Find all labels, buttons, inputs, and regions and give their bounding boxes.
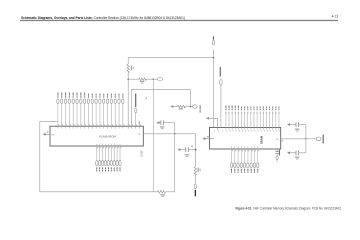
SRAM top pin A6 stub/label [260,107,262,132]
FLASH ROM top pin A9 stub/oval/label [87,94,90,129]
FLASH ROM bottom pin D0 stub/oval/label [96,144,99,172]
svg-text:U350: U350 [139,150,143,157]
FLASH ROM top pin A4 stub/oval/label [106,94,109,129]
FLASH ROM bottom pin D7 stub/oval/label [116,144,119,172]
junction dot at VPP node [127,78,129,80]
SRAM top pin A14 stub/label [235,106,237,132]
capacitor C364 with left arrow [287,150,306,159]
junction dot on FLASH right wire [174,133,176,135]
SRAM top pin A1 stub/label [275,107,277,132]
SRAM top pin A7 stub/label [257,107,259,132]
SRAM bottom pin D3 stub/oval/label [240,146,243,172]
FLASH ROM bottom pin D1 stub/oval/label [99,144,102,172]
svg-text:FLASH ROM: FLASH ROM [100,134,117,138]
capacitor C361 with left arrow and + [177,146,195,157]
SRAM bottom pin D2 stub/oval/label [237,146,240,172]
SRAM WE arrow wire to top pin 2 [206,117,219,132]
wire: 5V horizontal to resistor branch [128,58,213,65]
capacitor C363 with left arrow [287,122,306,131]
net label FLASH_CS vertical [200,105,201,109]
SRAM top pin A5 stub/label [263,107,265,132]
FLASH ROM top pin WE wire loop up [131,89,190,128]
SRAM bottom pin D1 stub/oval/label [234,146,237,172]
FLASH ROM top pin A16 stub/oval/label [61,92,64,128]
FLASH ROM top pin A5 stub/oval/label [103,94,106,129]
FLASH ROM OE left arrow connector [43,132,55,137]
U351 label SRAM rotated [260,135,264,144]
SRAM top pin A12 stub/label [241,107,243,132]
wire: outer loop from FLASH pin1 around left and bottom [40,121,158,191]
FLASH ROM top pin A13 stub/oval/label [72,92,75,128]
junction dot GND chain [195,149,197,151]
VCC rail vertical wire [305,125,307,153]
FLASH ROM top pin A11 stub/oval/label [80,92,83,128]
FLASH ROM top pin A12 stub/oval/label [76,92,79,128]
FLASH ROM bottom pin D4 stub/oval/label [107,144,110,172]
GND net label vertical dark [195,190,196,196]
svg-text:I/O: I/O [276,139,279,141]
IC U351 SRAM box [210,128,281,150]
5V net connector at top [212,36,214,45]
svg-text:SRAM: SRAM [260,135,264,144]
SRAM top pin A11 stub/label [244,107,246,132]
FLASH ROM top pin A14 stub/oval/label [68,92,71,128]
svg-text:R: R [139,134,141,136]
junction dot R357 node [153,78,155,80]
resistor R362 in bottom wire [157,191,165,198]
SRAM top pin A17 stub/label [225,106,227,132]
SRAM top pin A8 stub/label [253,107,255,132]
FLASH ROM top pin A8 stub/oval/label [91,94,94,129]
FLASH ROM top pin A0 stub/oval/label [122,94,125,129]
SRAM right pin wire to VCC rail [276,139,306,142]
FLASH ROM bottom pin D6 stub/oval/label [113,144,116,172]
SRAM top pin A9 stub/label [250,107,252,132]
svg-text:Figure 4-10. VHF Controller Me: Figure 4-10. VHF Controller Memory Schem… [236,206,342,210]
header rule [20,20,338,21]
U350 refdes rotated text [139,150,143,157]
FLASH ROM bottom pin D2 stub/oval/label [101,144,104,172]
SRAM top pin A2 stub/label [272,107,274,132]
capacitor C362 vertical with GND oval [275,149,280,162]
5V MEM net connector and wire to SRAM top pin 3 [220,67,223,132]
SRAM top pin A16 stub/label [228,106,230,132]
SRAM bottom pin D6 stub/oval/label [250,146,253,172]
junction dot 5V tee [213,57,215,59]
svg-text:4-13: 4-13 [332,15,339,19]
capacitor C360 with left arrow [156,120,174,129]
VCC net connector oval and label [306,135,324,144]
SRAM bottom pin D4 stub/oval/label [243,146,246,172]
FLASH ROM bottom pin D5 stub/oval/label [110,144,113,172]
stray pin number near CE label [145,97,148,99]
FLASH ROM top pin A15 stub/oval/label [64,92,67,128]
resistor R358 horizontal [173,105,191,109]
net connector oval FLASH_CS [190,105,197,108]
SRAM top pin A4 stub/label [266,107,268,132]
GND net connector oval [194,184,196,189]
FLASH ROM top pin A6 stub/oval/label [99,94,102,129]
SRAM bottom pin D7 stub/oval/label [253,146,256,172]
wire: FLASH right wire corner down to cap node [195,134,197,167]
wire: 5V vertical down to SRAM pin 1 [213,49,215,127]
junction dot FLASH_CS node [190,106,192,108]
SRAM top pin A3 stub/label [269,107,271,132]
FLASH chip-select arrow [170,105,173,108]
resistor R357 horizontal [128,78,153,84]
SRAM OE left arrow connector [202,136,213,140]
FLASH ROM top pin VPP wire to resistor node [128,79,129,128]
SRAM top pin A10 stub/label [247,107,249,132]
FLASH ROM top pin A10 stub/oval/label [83,92,86,128]
junction dot VCC rail [305,138,307,140]
FLASH ROM top pin A3 stub/oval/label [110,94,113,129]
FLASH ROM top pin 44 short stub [139,121,141,129]
SRAM top pin A0 stub/label [278,107,280,132]
SRAM top pin 1 number [213,130,216,132]
FLASH ROM bottom pin D8 stub/oval/label [119,144,122,172]
wire: resistor to junction [127,73,129,80]
FLASH ROM top pin A1 stub/oval/label [118,94,121,129]
FLASH ROM top pin A17 stub/oval/label [57,92,60,128]
SRAM bottom pin D8 stub/oval/label [257,146,260,172]
FLASH ROM top pin A7 stub/oval/label [95,94,98,129]
SRAM bottom pin D5 stub/oval/label [247,146,250,172]
IC U350 FLASH ROM box [50,126,143,146]
FLASH ROM top pin A2 stub/oval/label [114,94,117,129]
svg-text:Schematic Diagrams, Overlays,: Schematic Diagrams, Overlays, and Parts … [21,16,185,20]
net connector oval right of R357 [153,78,162,81]
FLASH ROM bottom pin D3 stub/oval/label [104,144,107,172]
wire: bottom to right riser [166,123,175,192]
resistor R359 vertical [194,167,201,175]
resistor R356 vertical [127,64,134,72]
svg-text:OE: OE [51,134,55,136]
FLASH ROM right pin wire to SRAM area [139,134,196,136]
wire: long vertical from R357 node down to bottom wire [152,79,154,192]
SRAM bottom pin D0 stub/oval/label [230,146,233,172]
SRAM top pin A15 stub/label [232,106,234,132]
FLASH ROM top pin CE oval and long net label [135,94,138,129]
SRAM top pin A13 stub/label [238,106,240,132]
